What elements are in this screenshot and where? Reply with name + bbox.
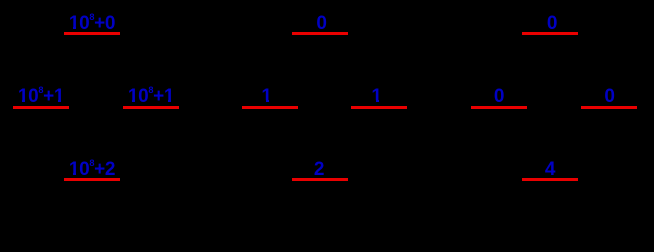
label 10^8+2 xyxy=(69,160,115,180)
level G1a diagram3 mid-left (0) xyxy=(471,106,527,109)
label 1 right xyxy=(371,87,381,107)
label 1 left xyxy=(261,87,271,107)
label 10^8+1 left xyxy=(18,87,64,107)
label 2 xyxy=(314,160,324,180)
label 0 mid-right xyxy=(604,87,614,107)
label 10^8+1 right xyxy=(128,87,174,107)
level F1a diagram2 mid-left (1) xyxy=(242,106,298,109)
label 0 top xyxy=(547,14,557,34)
level G1b diagram3 mid-right (0) xyxy=(581,106,637,109)
level G0 diagram3 top (0) xyxy=(522,32,578,35)
level E0 diagram1 top (10^8+0) xyxy=(64,32,120,35)
level E2 diagram1 bottom (10^8+2) xyxy=(64,178,120,181)
level F0 diagram2 top (0) xyxy=(292,32,348,35)
label 10^8+0 xyxy=(69,14,115,34)
level F1b diagram2 mid-right (1) xyxy=(351,106,407,109)
level G2 diagram3 bottom (4) xyxy=(522,178,578,181)
label 0 mid-left xyxy=(494,87,504,107)
label 0 xyxy=(316,14,326,34)
level E1a diagram1 mid-left (10^8+1) xyxy=(13,106,69,109)
label 4 xyxy=(545,160,555,180)
level F2 diagram2 bottom (2) xyxy=(292,178,348,181)
level E1b diagram1 mid-right (10^8+1) xyxy=(123,106,179,109)
